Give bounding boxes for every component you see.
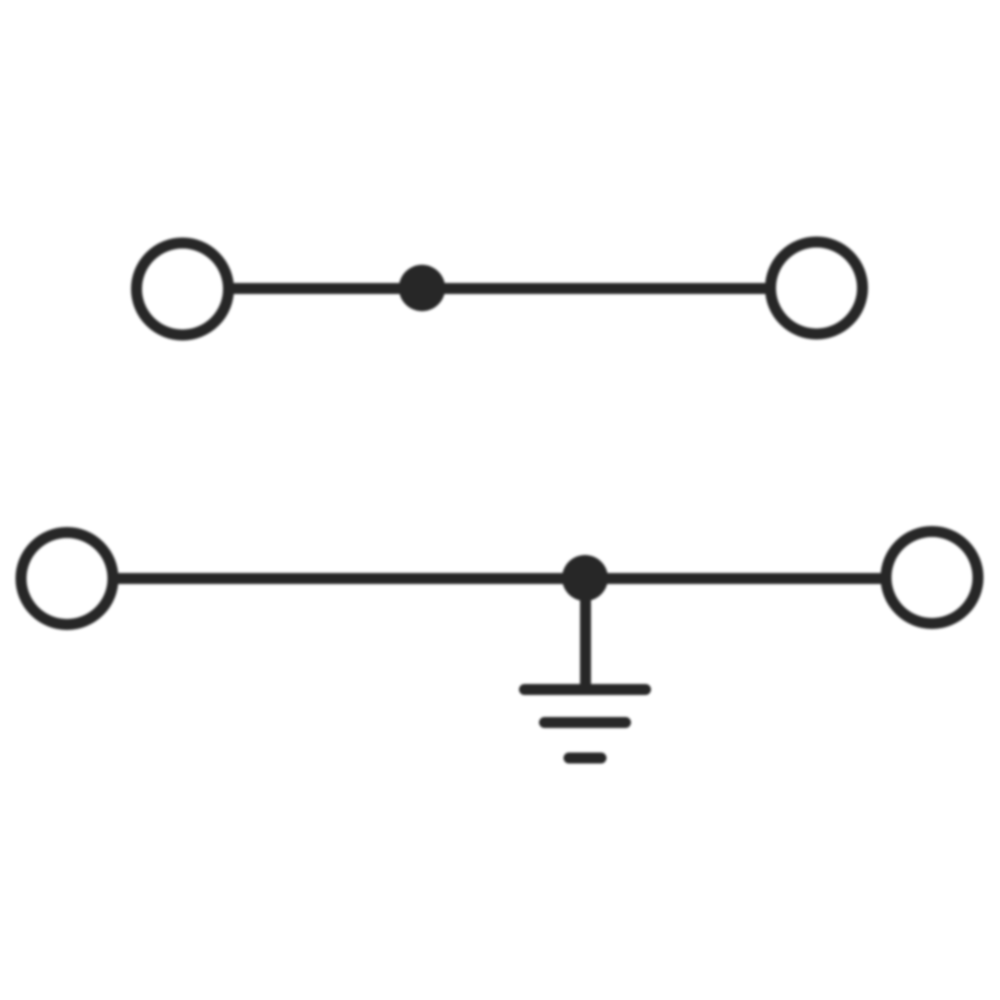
ground bar 1 [525,684,646,695]
terminal circle top-left [137,243,229,335]
ground bar 3 [569,753,601,764]
terminal circle top-right [771,242,863,334]
terminal circle bottom-right [886,532,978,624]
ground bar 2 [545,717,626,728]
node junction dot on bottom wire [562,555,608,601]
terminal circle bottom-left [21,533,113,625]
wire top horizontal [228,283,770,294]
wire vertical to ground [580,578,591,690]
wire bottom horizontal [112,573,886,584]
node junction dot on top wire [399,265,445,311]
